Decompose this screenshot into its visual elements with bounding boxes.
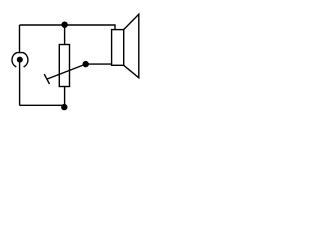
wire bottom horizontal (20, 104, 65, 106)
speaker LS1 cone (124, 14, 139, 78)
wire wiper to speaker (86, 63, 112, 65)
speaker LS1 driver rectangle (112, 30, 124, 66)
wire left vertical lower (19, 60, 21, 105)
wire left vertical upper (19, 25, 21, 52)
resistor R1 body (59, 45, 69, 87)
jack J1 arc left (12, 52, 17, 67)
potentiometer wiper arrow diagonal (48, 64, 86, 79)
jack J1 center pin dot (17, 57, 23, 63)
potentiometer wiper crossbar (44, 74, 49, 84)
wire resistor bottom lead (64, 87, 66, 108)
wire top horizontal (20, 24, 116, 26)
node junction dot bottom (61, 104, 67, 110)
node wiper junction dot (83, 61, 89, 67)
node junction dot top (61, 22, 67, 28)
jack J1 arc right (23, 52, 28, 67)
jack J1 tip terminal bar (17, 52, 23, 54)
wire speaker top drop (114, 24, 116, 29)
wire resistor top lead (64, 25, 66, 45)
